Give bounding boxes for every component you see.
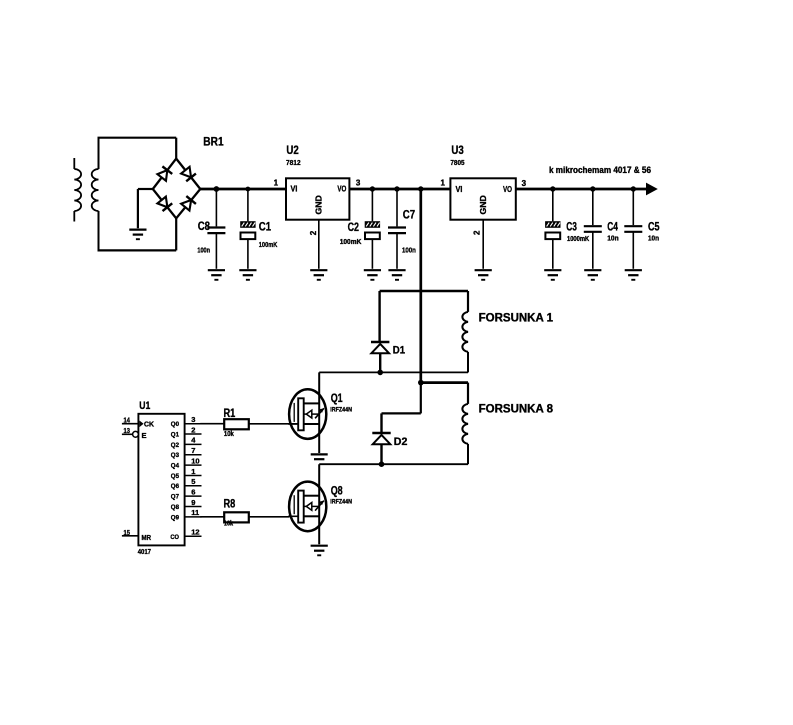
svg-text:7: 7 — [191, 446, 195, 455]
svg-text:VI: VI — [456, 184, 463, 194]
svg-text:3: 3 — [191, 415, 195, 424]
svg-text:3: 3 — [522, 179, 527, 188]
svg-text:C8: C8 — [198, 219, 211, 233]
svg-text:10n: 10n — [648, 235, 659, 242]
svg-text:1000mK: 1000mK — [567, 236, 589, 243]
svg-text:U2: U2 — [286, 143, 299, 157]
svg-text:R1: R1 — [224, 408, 236, 420]
svg-text:15: 15 — [124, 530, 130, 537]
svg-text:3: 3 — [356, 178, 361, 187]
svg-text:10: 10 — [191, 456, 199, 465]
svg-text:4017: 4017 — [138, 549, 151, 556]
svg-text:MR: MR — [142, 535, 152, 542]
svg-text:7812: 7812 — [286, 158, 301, 167]
svg-text:Q1: Q1 — [331, 391, 343, 405]
svg-text:Q3: Q3 — [171, 452, 179, 459]
svg-text:CK: CK — [144, 420, 155, 429]
svg-text:C2: C2 — [348, 220, 360, 234]
svg-text:2: 2 — [191, 425, 195, 434]
svg-text:12: 12 — [191, 528, 199, 537]
svg-text:Q9: Q9 — [171, 514, 179, 521]
svg-text:14: 14 — [124, 417, 130, 424]
svg-text:1: 1 — [191, 467, 195, 476]
svg-text:E: E — [142, 431, 147, 440]
svg-text:10k: 10k — [224, 431, 234, 438]
svg-text:Q7: Q7 — [171, 494, 179, 501]
svg-text:U3: U3 — [451, 143, 464, 157]
svg-text:2: 2 — [309, 230, 318, 235]
svg-text:D2: D2 — [394, 436, 408, 448]
svg-text:6: 6 — [191, 487, 195, 496]
svg-text:IRFZ44N: IRFZ44N — [330, 407, 352, 414]
svg-text:100mK: 100mK — [340, 239, 362, 246]
svg-text:FORSUNKA 1: FORSUNKA 1 — [479, 312, 554, 324]
svg-text:k mikrochemam 4017 & 56: k mikrochemam 4017 & 56 — [549, 165, 651, 175]
svg-text:100n: 100n — [402, 247, 416, 254]
svg-text:100n: 100n — [197, 247, 210, 254]
svg-text:VO: VO — [337, 184, 346, 194]
svg-text:5: 5 — [191, 477, 195, 486]
svg-text:FORSUNKA 8: FORSUNKA 8 — [479, 403, 554, 415]
svg-text:Q1: Q1 — [171, 431, 179, 438]
svg-text:GND: GND — [479, 195, 488, 214]
svg-text:Q5: Q5 — [171, 473, 179, 480]
svg-text:10k: 10k — [224, 521, 233, 528]
svg-text:IRFZ44N: IRFZ44N — [330, 499, 352, 506]
svg-text:VO: VO — [503, 184, 512, 194]
svg-text:C7: C7 — [403, 207, 416, 221]
svg-text:100mK: 100mK — [259, 242, 278, 249]
svg-text:BR1: BR1 — [203, 135, 224, 149]
svg-text:Q8: Q8 — [171, 504, 179, 511]
svg-text:10n: 10n — [607, 235, 619, 242]
svg-text:4: 4 — [191, 436, 196, 445]
svg-text:Q0: Q0 — [171, 421, 179, 428]
svg-text:2: 2 — [473, 230, 482, 235]
svg-text:9: 9 — [191, 498, 195, 507]
svg-text:D1: D1 — [393, 344, 405, 356]
svg-text:C4: C4 — [607, 220, 618, 234]
svg-text:C5: C5 — [648, 220, 660, 234]
svg-text:1: 1 — [440, 178, 445, 187]
svg-text:7805: 7805 — [450, 158, 464, 167]
svg-text:11: 11 — [191, 508, 199, 517]
svg-text:C1: C1 — [259, 220, 272, 234]
svg-text:VI: VI — [291, 184, 298, 194]
svg-text:Q2: Q2 — [171, 442, 179, 449]
svg-text:U1: U1 — [139, 400, 150, 412]
svg-text:Q4: Q4 — [171, 463, 179, 470]
svg-text:GND: GND — [315, 195, 324, 214]
svg-text:1: 1 — [274, 178, 279, 187]
svg-text:Q8: Q8 — [331, 483, 343, 497]
svg-text:R8: R8 — [224, 498, 236, 510]
svg-text:C3: C3 — [566, 220, 577, 234]
svg-text:13: 13 — [124, 428, 130, 435]
svg-text:Q6: Q6 — [171, 483, 179, 490]
svg-text:CO: CO — [170, 534, 179, 541]
